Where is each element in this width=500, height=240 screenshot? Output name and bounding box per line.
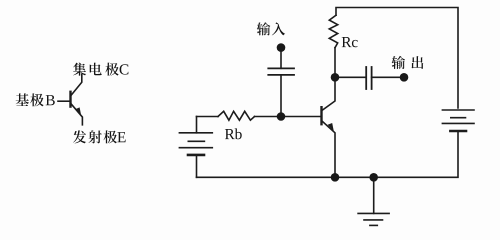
node ground junction dot (369, 173, 378, 182)
wire Rb to transistor base (255, 116, 321, 118)
wire capacitor to output terminal (372, 76, 404, 78)
resistor Rc (329, 15, 337, 48)
label collector 集电极C (73, 63, 86, 76)
battery V1 left lead and plates (179, 117, 212, 178)
node collector junction dot (331, 73, 340, 82)
wire top rail (336, 8, 458, 109)
wire capacitor to base node (280, 75, 282, 117)
wire input terminal to capacitor (280, 48, 282, 69)
resistor Rb (218, 111, 255, 120)
node output terminal dot (400, 73, 409, 82)
label emitter 发射极E (73, 130, 86, 143)
wire bottom rail (197, 131, 459, 177)
transistor symbol emitter arrow (75, 107, 81, 115)
capacitor C2 output coupling (366, 67, 371, 89)
transistor Q1 emitter arrow (328, 123, 334, 131)
wire left to resistor Rb (197, 116, 219, 118)
transistor Q1 collector lead (322, 77, 336, 111)
transistor symbol collector lead (71, 74, 82, 96)
ground symbol (358, 177, 389, 225)
transistor Q1 base bar (320, 107, 322, 124)
label input 输入 (257, 22, 270, 35)
node emitter-rail junction dot (331, 173, 340, 182)
transistor symbol base bar (69, 92, 71, 107)
label Rc (342, 37, 352, 47)
label Rb (225, 129, 235, 139)
transistor Q1 emitter lead (322, 121, 336, 178)
wire Rc to collector node (334, 48, 336, 78)
node base junction dot (277, 112, 286, 121)
label base 基极B (16, 93, 29, 106)
wire collector node to output capacitor (335, 76, 366, 78)
battery V2 right plates (442, 110, 474, 131)
capacitor C1 input coupling (268, 68, 294, 75)
label output 输出 (392, 56, 405, 69)
transistor symbol emitter lead (71, 103, 83, 125)
node input terminal dot (277, 43, 286, 52)
transistor symbol (left reference drawing) base lead (58, 100, 71, 102)
